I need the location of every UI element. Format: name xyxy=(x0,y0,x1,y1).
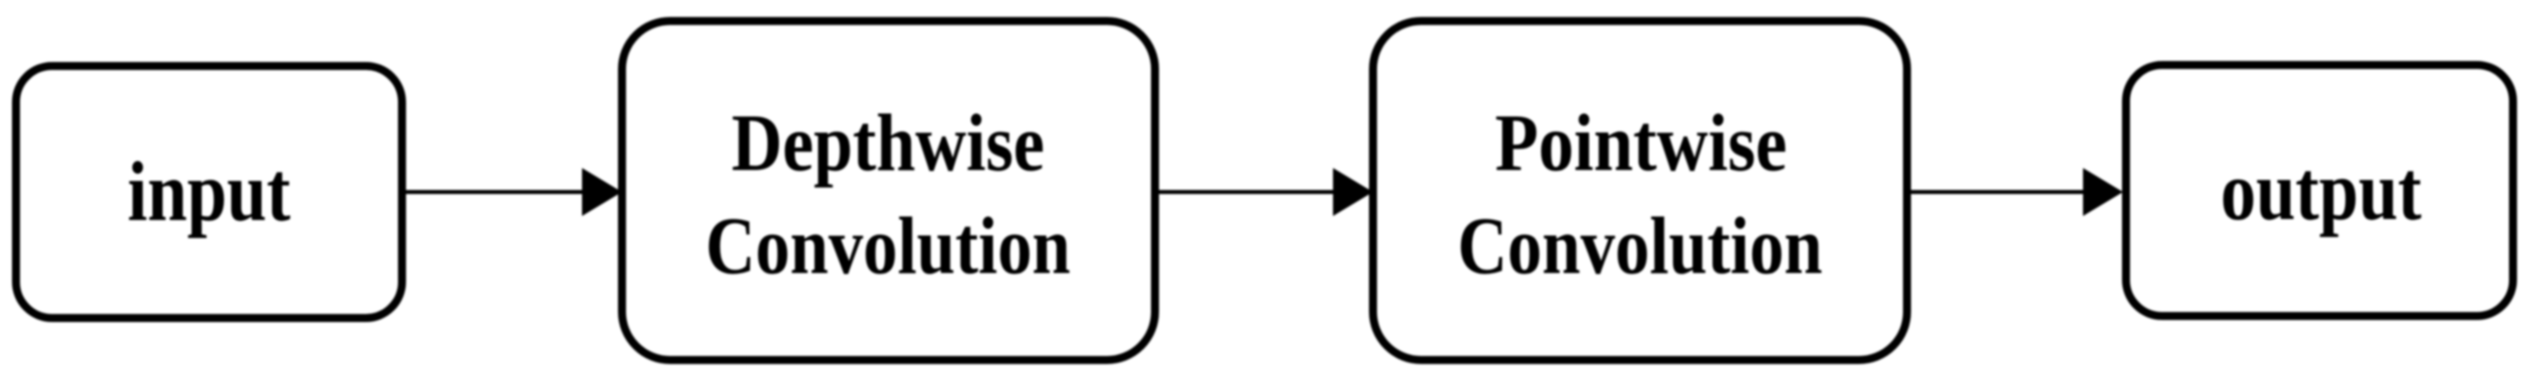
wire: Pointwise to output xyxy=(1911,190,2087,194)
wire: Depthwise to Pointwise xyxy=(1159,190,1337,194)
arrowhead 1 xyxy=(582,168,622,216)
wire: input to Depthwise xyxy=(406,190,586,194)
block: input xyxy=(16,66,402,318)
svg-text:Depthwise: Depthwise xyxy=(732,97,1045,188)
svg-text:input: input xyxy=(128,145,291,239)
svg-text:Convolution: Convolution xyxy=(1458,200,1823,291)
block: Depthwise Convolution xyxy=(622,21,1155,360)
svg-text:Pointwise: Pointwise xyxy=(1495,97,1787,188)
block: Pointwise Convolution xyxy=(1373,21,1907,360)
block: output xyxy=(2126,65,2513,316)
svg-text:Convolution: Convolution xyxy=(706,200,1071,291)
arrowhead 2 xyxy=(1333,168,1373,216)
arrowhead 3 xyxy=(2083,168,2123,216)
svg-text:output: output xyxy=(2221,144,2422,238)
